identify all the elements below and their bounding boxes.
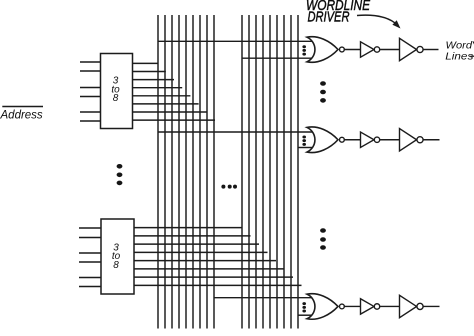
svg-text:Address: Address <box>0 110 43 122</box>
wire NOR G2 input 1 <box>158 131 313 133</box>
bubble B3 output <box>417 303 423 309</box>
arrowhead of pointer arrow <box>392 20 400 28</box>
svg-text:Lines: Lines <box>445 51 473 62</box>
wire G2 to A2 <box>344 139 360 141</box>
decoder U2 3-to-8 box <box>101 219 134 294</box>
wire NOR G3 input 2 <box>298 314 312 316</box>
wire G3 to A3 <box>344 305 360 307</box>
label decoder U1 "3 to 8" <box>111 75 120 104</box>
wire A1 to B1 <box>380 49 400 51</box>
svg-text:8: 8 <box>113 260 119 271</box>
bubble G1 output <box>340 47 345 52</box>
inverter A1 row1 <box>361 42 375 57</box>
ellipsis dots G2 inputs <box>302 135 306 145</box>
cut-off dash after Lines <box>471 55 474 57</box>
wire right vertical bus lines (decoder U2 outputs) <box>242 15 298 329</box>
bubble A2 output <box>374 137 379 142</box>
nor-gate G1 row1 <box>307 37 423 63</box>
wire G1 to A1 <box>344 49 360 51</box>
wire A3 to B3 <box>380 305 400 307</box>
wire left vertical bus lines (decoder U1 outputs) <box>158 15 214 329</box>
ellipsis dots between row1 and row2 drivers <box>320 81 326 103</box>
wire B1 wordline output <box>423 49 438 51</box>
ellipsis dots between row2 and row3 drivers <box>320 228 326 250</box>
wire decoder U2 outputs staircase <box>134 228 302 286</box>
wire address input stubs to decoder U1 <box>80 62 101 121</box>
nor-gate G2 row2 <box>307 127 423 153</box>
wire NOR G1 input 2 <box>242 57 312 59</box>
inverter A2 row2 <box>361 132 375 147</box>
wire NOR G2 input 2 <box>298 147 312 149</box>
wire NOR G3 input 1 <box>214 297 313 299</box>
wire A2 to B2 <box>380 139 400 141</box>
svg-text:8: 8 <box>113 93 119 104</box>
bubble G2 output <box>340 137 345 142</box>
bubble G3 output <box>340 304 345 309</box>
inverter A3 row3 <box>361 299 375 314</box>
label decoder U2 "3 to 8" <box>112 242 121 271</box>
bubble B1 output <box>417 46 423 52</box>
nor-gate G3 row3 <box>307 294 423 320</box>
inverter B3 row3 <box>400 295 417 317</box>
wire NOR G1 input 1 <box>158 40 313 42</box>
bubble B2 output <box>417 137 423 143</box>
wire decoder U1 outputs staircase <box>133 63 216 120</box>
ellipsis dots between decoders <box>117 164 123 185</box>
wire B3 wordline output <box>423 305 439 307</box>
inverter B2 row2 <box>400 129 417 151</box>
wire B2 wordline output <box>423 139 439 141</box>
bubble A1 output <box>374 47 379 52</box>
decoder U1 3-to-8 box <box>101 54 133 129</box>
inverter B1 row1 <box>400 38 417 60</box>
wordline driver pointer arrow <box>357 15 395 23</box>
cut-off mark after Word <box>473 42 474 45</box>
wire address input stubs to decoder U2 <box>79 228 101 287</box>
node Address label overline <box>2 106 43 108</box>
ellipsis dots G3 inputs <box>302 302 306 312</box>
bubble A3 output <box>374 304 379 309</box>
ellipsis dots between bus groups <box>221 185 237 189</box>
svg-text:Word: Word <box>446 40 473 51</box>
ellipsis dots G1 inputs <box>302 45 306 55</box>
svg-text:DRIVER: DRIVER <box>308 9 350 25</box>
